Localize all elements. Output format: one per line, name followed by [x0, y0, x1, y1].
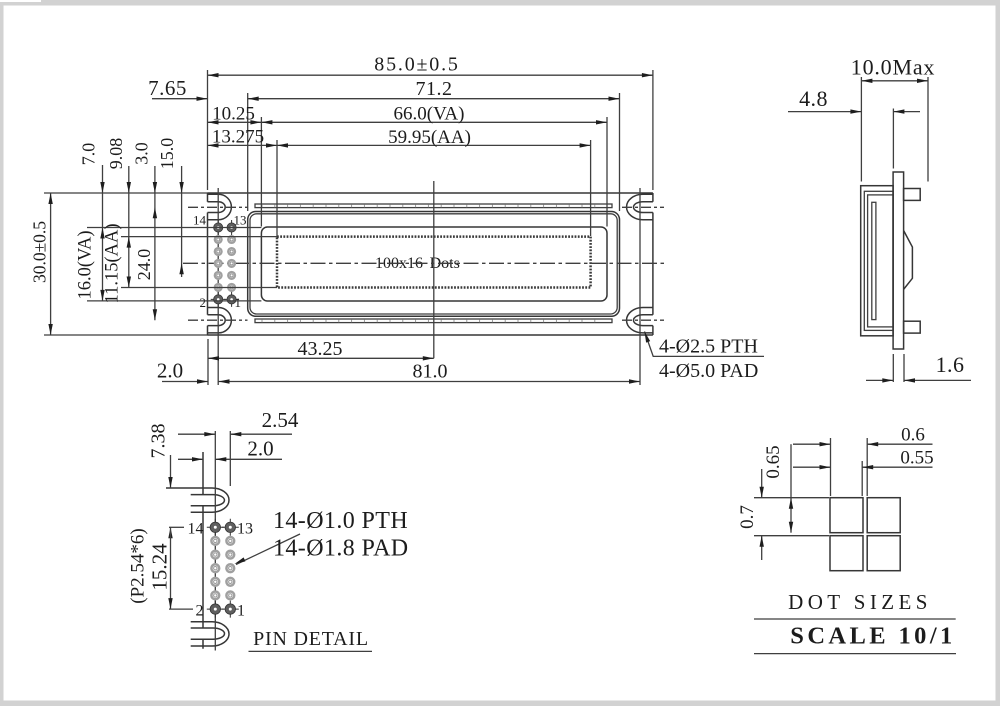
svg-text:PIN DETAIL: PIN DETAIL	[253, 628, 369, 650]
dim line 13.275 / 59.95(AA)	[208, 144, 591, 146]
extension vertical dot col1 left	[830, 438, 832, 496]
detail board edge line	[202, 452, 204, 649]
svg-text:0.65: 0.65	[763, 445, 784, 478]
mounting ear top-right	[627, 194, 653, 219]
svg-text:7.0: 7.0	[79, 143, 99, 166]
svg-text:30.0±0.5: 30.0±0.5	[30, 221, 50, 283]
dim line 7.65	[152, 98, 208, 100]
pins 2x7	[211, 220, 239, 307]
bezel inner line	[250, 214, 617, 314]
dim 7.0 / 16.0(VA) vertical	[102, 165, 104, 301]
extension horizontal va-top to left	[87, 227, 261, 229]
svg-text:14: 14	[193, 213, 207, 228]
side body bezel rect	[861, 186, 893, 336]
zebra strip bottom	[255, 319, 612, 323]
extension vertical bezel-left	[247, 93, 249, 211]
svg-text:1: 1	[235, 295, 242, 310]
module PCB right edge (gaps at ear slots)	[652, 193, 654, 335]
zebra strip top	[255, 204, 612, 208]
dim 30.0±0.5 vertical	[50, 193, 52, 335]
side pin tab bottom	[904, 321, 921, 333]
extension vertical side right max	[927, 77, 929, 182]
ear centerline top-left	[188, 206, 248, 208]
page frame top band	[41, 0, 1000, 6]
ear centerline bottom-right	[622, 319, 664, 321]
page frame left band	[0, 6, 4, 701]
svg-text:1.6: 1.6	[936, 352, 965, 377]
dim line 1.6	[866, 379, 971, 381]
extension vertical va-left	[260, 117, 262, 227]
zebra strip ticks	[262, 204, 595, 322]
dim line 10.0Max	[861, 80, 928, 82]
extension vertical pcb-left	[207, 70, 209, 190]
VA window rounded rect	[261, 227, 607, 301]
detail pins	[207, 519, 239, 618]
AA dotted rectangle	[277, 237, 591, 288]
svg-text:3.0: 3.0	[132, 142, 152, 165]
dim 0.65 vertical	[790, 444, 792, 533]
dim line 0.6	[793, 443, 933, 445]
dot square bottom-right	[867, 536, 900, 571]
dim line 0.55	[793, 466, 933, 468]
dim line 2.0 / 81.0	[162, 381, 640, 383]
svg-text:15.0: 15.0	[157, 138, 177, 170]
extension horizontal dot top row	[754, 497, 829, 499]
dim line 2.54	[178, 433, 292, 435]
svg-text:7.65: 7.65	[148, 76, 187, 100]
module PCB left edge (gaps at ear slots)	[207, 193, 209, 335]
extension vertical dot col2 left	[866, 438, 868, 496]
horizontal centerline	[183, 262, 667, 264]
dim line 2.0	[178, 458, 282, 460]
svg-text:2.54: 2.54	[262, 408, 299, 432]
extension vertical pcb-right	[652, 70, 654, 190]
dim 15.24 vertical	[170, 527, 172, 609]
svg-text:SCALE 10/1: SCALE 10/1	[790, 623, 955, 650]
svg-text:4-Ø2.5 PTH: 4-Ø2.5 PTH	[659, 336, 758, 358]
extension horizontal dot second row	[754, 535, 829, 537]
hole center vertical right	[639, 188, 641, 385]
module PCB outline top edge	[208, 192, 653, 194]
extension verticals for 1.6	[893, 354, 904, 382]
svg-text:10.0Max: 10.0Max	[851, 55, 935, 80]
dot square top-left	[830, 498, 863, 533]
svg-text:2: 2	[200, 295, 207, 310]
extension horizontal va-bottom to left	[87, 300, 261, 302]
extension vertical aa-left	[276, 140, 278, 236]
dim line 71.2	[248, 98, 620, 100]
detail hole center vertical	[214, 431, 216, 651]
svg-text:0.7: 0.7	[737, 505, 758, 529]
detail row1 extension to left	[169, 526, 184, 528]
side PCB rect	[893, 172, 904, 349]
svg-text:59.95(AA): 59.95(AA)	[388, 127, 471, 148]
dim 7.38 vertical	[170, 455, 172, 488]
extension vertical pcb-left lower	[207, 339, 209, 385]
svg-text:13: 13	[234, 213, 247, 228]
ear centerline top-right	[622, 206, 664, 208]
page frame right band	[996, 6, 1000, 701]
svg-text:2: 2	[196, 603, 204, 620]
extension horizontal module-bottom to left	[44, 334, 208, 336]
svg-text:(P2.54*6): (P2.54*6)	[128, 528, 149, 603]
extension horizontal aa-top to left	[121, 236, 277, 238]
svg-text:2.0: 2.0	[247, 437, 273, 461]
extension vertical side left	[860, 77, 862, 182]
leader 4-d2.5	[645, 332, 765, 357]
module PCB outline bottom edge	[208, 334, 653, 336]
svg-text:13: 13	[237, 521, 253, 538]
detail row7 extension to left	[169, 608, 193, 610]
svg-text:9.08: 9.08	[106, 138, 126, 170]
dim 3.0 / 24.0 vertical	[154, 166, 156, 320]
svg-text:10.25: 10.25	[212, 104, 255, 125]
dot square top-right	[867, 498, 900, 533]
mounting ear top-left	[208, 194, 232, 219]
extension vertical aa-right	[590, 140, 592, 236]
svg-text:0.55: 0.55	[900, 447, 933, 468]
bezel outer rounded rect	[248, 212, 620, 317]
dot square bottom-left	[830, 536, 863, 571]
side backlight bump	[904, 231, 913, 290]
side pin tab top	[904, 189, 921, 201]
svg-text:2.0: 2.0	[157, 359, 183, 383]
svg-text:85.0±0.5: 85.0±0.5	[374, 54, 459, 76]
svg-text:4-Ø5.0 PAD: 4-Ø5.0 PAD	[659, 360, 758, 382]
DOT SIZES underline	[754, 618, 956, 620]
dim 0.7 vertical	[761, 469, 763, 560]
dim line 4.8	[788, 111, 920, 113]
extension vertical pcb front for 4.8	[892, 109, 894, 169]
leader 14-d1.0	[236, 534, 300, 565]
dim line 10.25 / 66.0(VA)	[208, 121, 608, 123]
svg-text:71.2: 71.2	[416, 78, 453, 100]
svg-text:4.8: 4.8	[799, 86, 828, 111]
side glass rect 1	[864, 191, 893, 330]
extension horizontal module-top to left	[44, 192, 208, 194]
dim 9.08 / 11.15(AA) vertical	[128, 166, 130, 288]
page frame bottom band	[0, 701, 1000, 706]
extension vertical bezel-right	[619, 93, 621, 211]
svg-text:14-Ø1.0 PTH: 14-Ø1.0 PTH	[273, 508, 408, 534]
svg-text:DOT SIZES: DOT SIZES	[788, 590, 932, 614]
svg-text:0.6: 0.6	[901, 424, 925, 445]
extension vertical dot col1 right	[861, 461, 863, 496]
PIN DETAIL underline	[249, 650, 373, 652]
svg-text:7.38: 7.38	[148, 424, 170, 459]
mounting ear bottom-right	[627, 308, 653, 333]
detail ear top	[166, 488, 229, 512]
dim line 85.0	[208, 74, 653, 76]
detail col2 extension vertical	[229, 431, 231, 486]
detail ear bottom	[191, 622, 229, 646]
svg-text:11.15(AA): 11.15(AA)	[103, 224, 123, 304]
svg-text:16.0(VA): 16.0(VA)	[76, 230, 96, 299]
svg-text:15.24: 15.24	[148, 543, 172, 591]
svg-text:14: 14	[188, 521, 204, 538]
svg-text:24.0: 24.0	[134, 249, 154, 281]
AA center vertical	[433, 181, 435, 358]
side glass rect 2	[868, 195, 894, 327]
svg-text:66.0(VA): 66.0(VA)	[394, 104, 465, 125]
dim 15.0 vertical	[181, 166, 183, 277]
hole center vertical left	[217, 188, 219, 385]
svg-text:14-Ø1.8 PAD: 14-Ø1.8 PAD	[273, 536, 409, 562]
svg-text:81.0: 81.0	[413, 361, 448, 383]
ear centerline bottom-left	[188, 319, 248, 321]
extension vertical va-right	[606, 117, 608, 227]
extension horizontal aa-bottom to left	[121, 287, 277, 289]
SCALE underline	[754, 653, 956, 655]
svg-text:43.25: 43.25	[298, 338, 343, 360]
mounting ear bottom-left	[208, 308, 232, 333]
dim line 43.25	[208, 357, 434, 359]
side polarizer thin rect	[872, 202, 876, 319]
svg-text:13.275: 13.275	[212, 127, 264, 148]
svg-text:1: 1	[237, 603, 245, 620]
